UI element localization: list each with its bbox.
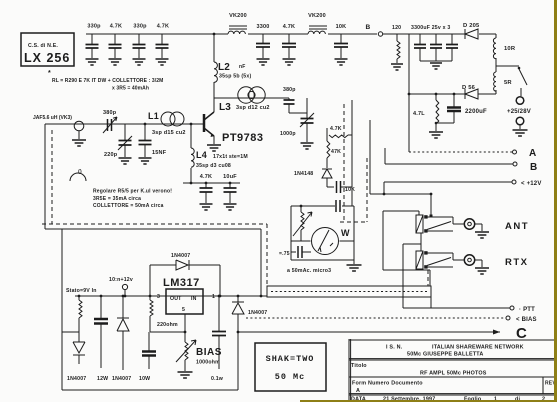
svg-text:ANT: ANT [505, 221, 529, 232]
svg-text:+25/28V: +25/28V [507, 109, 531, 115]
svg-text:120: 120 [392, 25, 401, 31]
svg-text:0.1w: 0.1w [211, 376, 224, 382]
svg-text:ITALIAN SHAREWARE NETWORK: ITALIAN SHAREWARE NETWORK [432, 345, 524, 351]
svg-text:SHAK=TWO: SHAK=TWO [266, 354, 315, 364]
svg-text:4.7K: 4.7K [110, 24, 122, 30]
svg-text:< BIAS: < BIAS [516, 317, 537, 323]
svg-text:50 Mc: 50 Mc [275, 372, 306, 382]
svg-text:JAF5.6 uH (VK3): JAF5.6 uH (VK3) [33, 115, 72, 121]
svg-text:D 56: D 56 [462, 85, 476, 91]
svg-text:RTX: RTX [505, 257, 529, 268]
svg-text:IN: IN [191, 296, 197, 302]
svg-text:1000p: 1000p [280, 131, 296, 137]
svg-text:4.7K: 4.7K [157, 24, 169, 30]
svg-text:3sp d12 cu2: 3sp d12 cu2 [236, 105, 270, 111]
svg-text:35sp 5b (5x): 35sp 5b (5x) [219, 74, 251, 80]
svg-text:Stato=9V In: Stato=9V In [66, 288, 97, 294]
svg-text:A: A [356, 388, 360, 394]
svg-text:Form Numero Documento: Form Numero Documento [352, 381, 423, 387]
svg-text:=.75: =.75 [279, 251, 290, 257]
svg-text:3sp d15 cu2: 3sp d15 cu2 [152, 130, 186, 136]
svg-text:Regolare R5/5 per K.ul verono!: Regolare R5/5 per K.ul verono! [93, 189, 172, 195]
svg-text:1N4007: 1N4007 [248, 310, 267, 316]
svg-text:1N4007: 1N4007 [112, 376, 131, 382]
svg-text:(): () [78, 169, 82, 175]
svg-text:C.S. di N.E.: C.S. di N.E. [28, 43, 58, 49]
svg-text:RF AMPL 50Mc PHOTOS: RF AMPL 50Mc PHOTOS [420, 371, 487, 377]
svg-text:PT9783: PT9783 [222, 132, 264, 144]
svg-text:220p: 220p [104, 152, 118, 158]
svg-text:330p: 330p [133, 24, 147, 30]
svg-text:· PTT: · PTT [519, 307, 535, 313]
svg-text:I S. N.: I S. N. [386, 345, 403, 351]
svg-text:330p: 330p [87, 24, 101, 30]
svg-text:3: 3 [157, 294, 160, 300]
svg-text:B: B [530, 162, 537, 173]
svg-text:COLLETTORE = 50mA circa: COLLETTORE = 50mA circa [93, 203, 164, 209]
svg-text:15NF: 15NF [152, 150, 167, 156]
svg-text:1N4007: 1N4007 [67, 376, 86, 382]
svg-text:4.7K: 4.7K [283, 24, 295, 30]
svg-text:*: * [48, 70, 51, 77]
svg-text:5R: 5R [504, 80, 512, 86]
svg-text:3R5E = 35mA circa: 3R5E = 35mA circa [93, 196, 141, 202]
svg-text:220ohm: 220ohm [157, 322, 178, 328]
svg-text:a 50mAc. micro3: a 50mAc. micro3 [287, 268, 331, 274]
svg-text:L2: L2 [218, 62, 230, 73]
svg-text:nF: nF [239, 64, 246, 70]
svg-text:x 3R5 = 40mAh: x 3R5 = 40mAh [112, 86, 149, 92]
svg-text:OUT: OUT [170, 296, 182, 302]
svg-text:5: 5 [182, 307, 185, 313]
svg-text:3300: 3300 [256, 24, 269, 30]
svg-text:380p: 380p [103, 110, 117, 116]
svg-text:W: W [341, 228, 350, 238]
svg-text:10:n+12v: 10:n+12v [109, 277, 133, 283]
svg-text:1N4148: 1N4148 [294, 171, 313, 177]
svg-text:12W: 12W [97, 376, 108, 382]
svg-text:LM317: LM317 [163, 277, 200, 289]
svg-text:50Mc GIUSEPPE BALLETTA: 50Mc GIUSEPPE BALLETTA [407, 352, 484, 358]
svg-text:4.7K: 4.7K [200, 174, 212, 180]
svg-text:Titolo: Titolo [351, 363, 367, 369]
svg-text:C: C [516, 325, 527, 342]
svg-text:L3: L3 [219, 102, 231, 113]
svg-text:L4: L4 [196, 150, 207, 160]
svg-text:1: 1 [212, 294, 215, 300]
svg-text:VK200: VK200 [229, 13, 247, 19]
svg-text:17x1t ste=1M: 17x1t ste=1M [213, 154, 248, 160]
svg-text:47K: 47K [331, 149, 341, 155]
svg-text:4.7K: 4.7K [330, 126, 342, 132]
svg-text:B: B [366, 24, 371, 31]
svg-text:< +12V: < +12V [521, 181, 542, 187]
svg-text:1N4007: 1N4007 [171, 253, 190, 259]
svg-text:BIAS: BIAS [196, 347, 222, 358]
svg-text:10W: 10W [139, 376, 150, 382]
svg-text:1000ohm: 1000ohm [196, 360, 220, 366]
svg-text:D 205: D 205 [463, 23, 480, 29]
svg-text:10K: 10K [336, 24, 347, 30]
svg-text:3300uF 25v x 3: 3300uF 25v x 3 [411, 25, 450, 31]
svg-text:VK200: VK200 [308, 13, 326, 19]
svg-text:35sp d3 cu08: 35sp d3 cu08 [196, 163, 231, 169]
svg-text:A: A [529, 148, 536, 159]
svg-text:10uF: 10uF [223, 174, 237, 180]
svg-text:4.7L: 4.7L [413, 111, 425, 117]
svg-text:380p: 380p [283, 87, 296, 93]
svg-text:2200uF: 2200uF [465, 109, 487, 115]
svg-text:RL = R290 E 7K IT DW + COLLETT: RL = R290 E 7K IT DW + COLLETTORE : 3/2M [52, 78, 163, 84]
svg-text:LX 256: LX 256 [24, 51, 70, 65]
svg-text:L1: L1 [148, 111, 159, 121]
svg-text:10K: 10K [345, 187, 355, 193]
svg-text:10R: 10R [504, 46, 516, 52]
